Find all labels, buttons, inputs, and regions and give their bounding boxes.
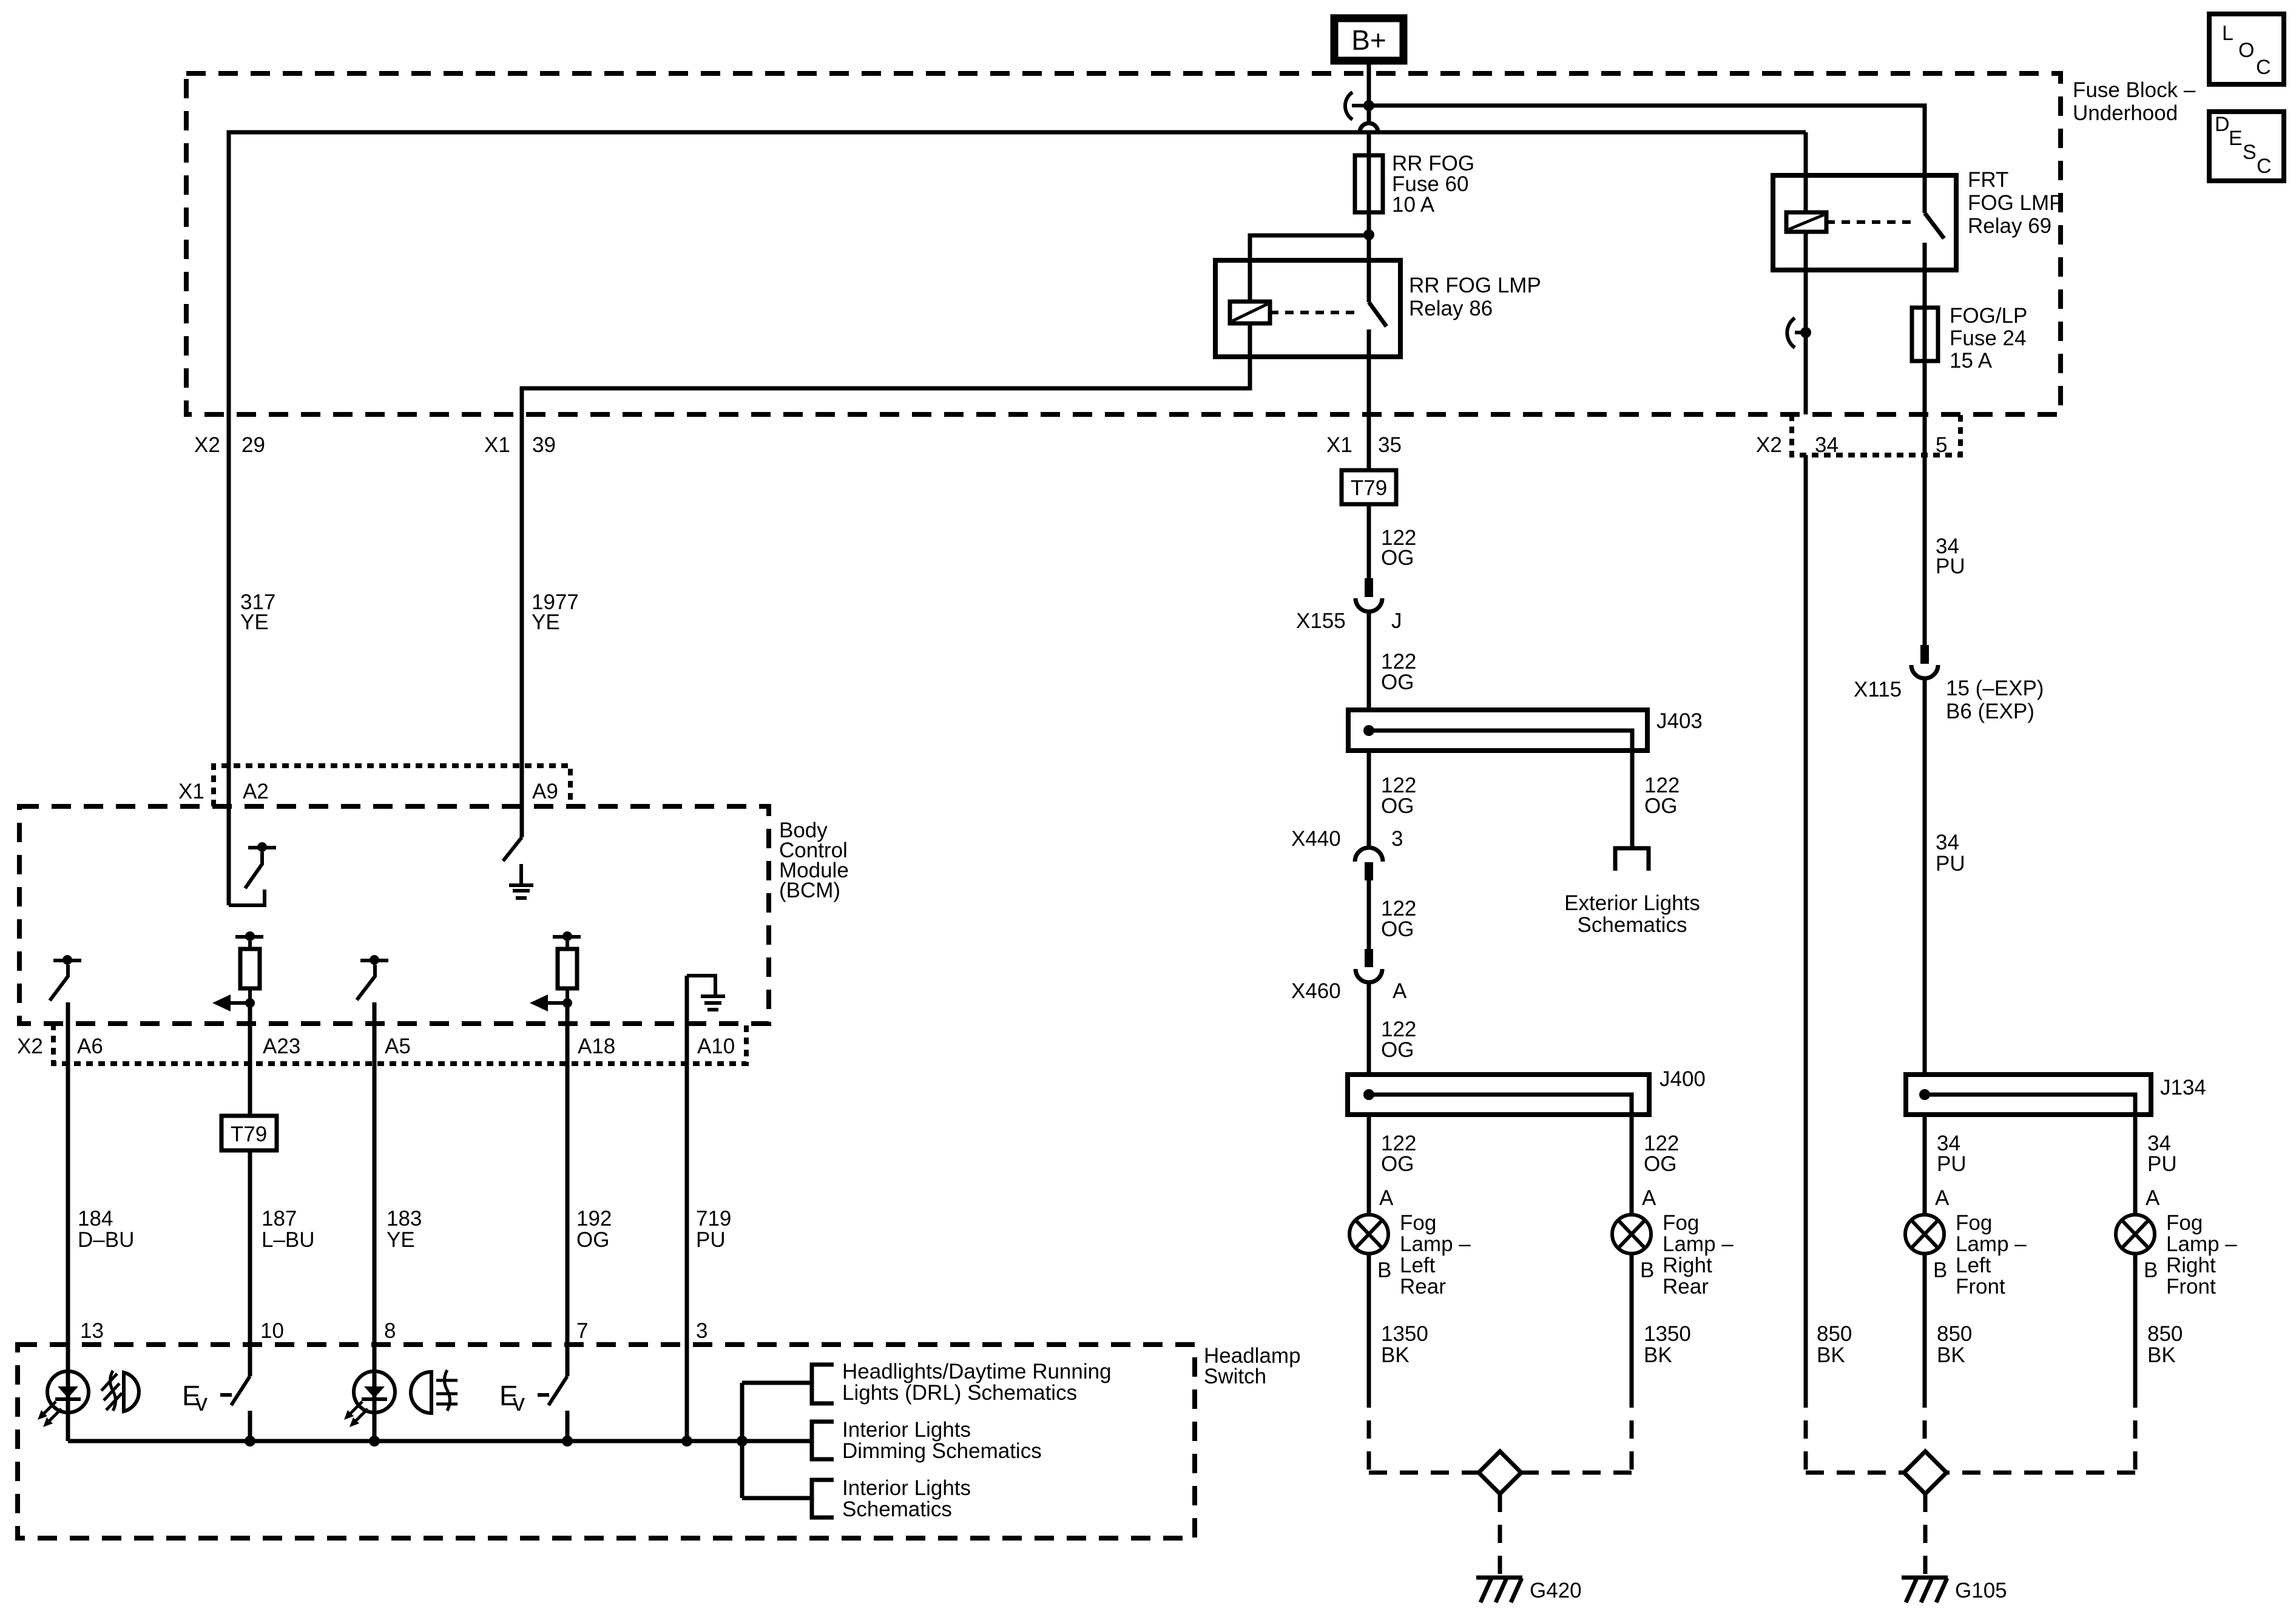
wire label 187 L-BU: [262, 1207, 315, 1252]
wire X115 to J134: [1923, 678, 1927, 1075]
svg-text:Headlights/Daytime Running: Headlights/Daytime Running: [842, 1360, 1112, 1383]
node bus dot 3: [681, 1436, 692, 1447]
svg-text:Switch: Switch: [1204, 1365, 1266, 1388]
wire relay 86 switch output: [1367, 329, 1371, 470]
svg-text:v: v: [195, 1389, 208, 1416]
svg-text:PU: PU: [1936, 555, 1965, 578]
off-page bracket DRL: [812, 1365, 834, 1403]
svg-text:D: D: [2215, 113, 2230, 136]
svg-text:B6 (EXP): B6 (EXP): [1946, 700, 2034, 723]
fuse block clip symbol at relay 69 return: [1787, 318, 1806, 348]
wire label 122 OG (3): [1381, 774, 1416, 818]
wire hop over BCM feed line: [1360, 106, 1378, 155]
svg-text:G420: G420: [1530, 1579, 1582, 1602]
svg-text:X1: X1: [178, 780, 204, 803]
connector X115 labels: [1854, 677, 2044, 723]
lamp fog right rear: [1612, 1215, 1651, 1254]
svg-text:PU: PU: [1936, 852, 1965, 876]
wire A5 pin 8: [373, 1002, 377, 1441]
switch A5: [357, 955, 388, 1000]
connector pin box X2 A6-A10 dotted: [53, 1024, 746, 1064]
svg-text:X1: X1: [1326, 433, 1352, 457]
wire label 122 OG (7): [1381, 1132, 1416, 1176]
T79 tag box middle chain: [1342, 470, 1396, 504]
wire A18 to headlamp switch pin 7: [566, 1003, 570, 1376]
wire label 122 OG (1): [1381, 526, 1416, 570]
svg-text:G105: G105: [1955, 1579, 2007, 1602]
wire feed to relay 69 coil: [1804, 132, 1808, 212]
relay K86 label: [1409, 274, 1541, 320]
fuse block label: [2073, 78, 2196, 125]
svg-text:X2: X2: [1756, 433, 1782, 457]
svg-text:1350: 1350: [1381, 1322, 1428, 1346]
off-page bracket exterior lights: [1615, 848, 1649, 871]
svg-text:S: S: [2243, 141, 2257, 164]
svg-text:FOG/LP: FOG/LP: [1950, 304, 2027, 328]
svg-text:X1: X1: [484, 433, 510, 457]
pin label X2 29: [194, 433, 265, 457]
svg-text:192: 192: [576, 1207, 612, 1230]
svg-text:BK: BK: [2147, 1343, 2176, 1367]
svg-text:34: 34: [1936, 831, 1959, 854]
lamp right front label: [2166, 1211, 2237, 1298]
switch A6: [50, 955, 81, 1001]
wire J403 right branch: [1630, 751, 1635, 848]
fuse F60 label: [1392, 152, 1474, 217]
svg-text:Lamp –: Lamp –: [1663, 1232, 1734, 1256]
svg-text:15 A: 15 A: [1950, 349, 1993, 373]
switch headlamp front fog position: [499, 1376, 567, 1416]
off-page bracket interior lights dimming: [812, 1422, 834, 1459]
svg-text:Rear: Rear: [1400, 1275, 1446, 1298]
svg-text:B: B: [1640, 1258, 1654, 1282]
switch A9 blade to ground: [503, 837, 522, 861]
LOC legend box: [2209, 14, 2284, 84]
svg-text:Left: Left: [1956, 1254, 1991, 1277]
wire relay 86 switch feed: [1367, 235, 1371, 302]
wire label 1977 YE: [532, 590, 579, 634]
svg-text:3: 3: [1391, 827, 1403, 851]
wire junction to relay 86 coil: [1250, 235, 1369, 302]
svg-text:X115: X115: [1854, 678, 1902, 701]
wire right rear lamp ground: [1630, 1254, 1634, 1389]
fuse F24 FOG/LP: [1912, 308, 1938, 361]
ground G105 symbol: [1902, 1578, 1948, 1602]
wire label 122 OG (8): [1644, 1132, 1679, 1176]
lamp left front label: [1956, 1211, 2027, 1298]
wire X155 to J403: [1367, 612, 1371, 710]
icon rear fog lamp: [101, 1371, 139, 1411]
svg-text:850: 850: [1817, 1322, 1852, 1346]
svg-text:v: v: [513, 1389, 525, 1416]
ground symbol inside BCM at A9: [509, 864, 533, 898]
fuse block clip symbol at B+ junction: [1345, 92, 1369, 120]
svg-text:PU: PU: [1937, 1152, 1967, 1176]
svg-text:Interior Lights: Interior Lights: [842, 1476, 971, 1500]
relay K86 switch blade: [1369, 302, 1386, 326]
LED indicator rear fog: [47, 1371, 89, 1413]
wire fuse 60 to junction: [1367, 212, 1371, 235]
lamp right rear label: [1663, 1211, 1734, 1298]
svg-text:29: 29: [241, 433, 265, 457]
svg-text:J400: J400: [1660, 1067, 1706, 1091]
connector pin box X1 A2/A9 dotted: [214, 766, 570, 806]
dashed wire to G420: [1498, 1494, 1502, 1576]
svg-text:Lights (DRL) Schematics: Lights (DRL) Schematics: [842, 1381, 1077, 1405]
relay K69 coil: [1786, 212, 1826, 232]
relay K69 coil to switch dashed link: [1826, 220, 1911, 224]
connector X460 labels: [1291, 979, 1407, 1003]
ground symbol inside BCM at A10: [687, 976, 725, 1010]
svg-text:Schematics: Schematics: [1578, 913, 1687, 937]
wire T79 to headlamp switch pin 10: [248, 1150, 252, 1376]
svg-text:OG: OG: [576, 1228, 609, 1252]
svg-text:O: O: [2238, 39, 2254, 62]
wire J134 to right front lamp: [2133, 1115, 2138, 1215]
svg-text:10: 10: [260, 1319, 284, 1343]
svg-text:719: 719: [696, 1207, 731, 1230]
svg-text:J: J: [1391, 609, 1402, 633]
wire fuse 24 to X115: [1923, 361, 1927, 645]
svg-text:YE: YE: [532, 610, 560, 634]
wire left rear lamp ground: [1367, 1254, 1371, 1389]
svg-text:Exterior Lights: Exterior Lights: [1564, 891, 1700, 915]
svg-text:A6: A6: [77, 1035, 103, 1058]
svg-text:183: 183: [387, 1207, 422, 1230]
splice diamond front: [1904, 1451, 1947, 1494]
wire relay 69 return to X2 34: [1804, 333, 1808, 414]
wire label 1350 BK right: [1644, 1322, 1691, 1367]
wire A6 pin 13: [66, 1002, 70, 1441]
T79 tag box BCM: [221, 1116, 277, 1150]
headlamp switch dashed box: [18, 1345, 1195, 1538]
wire A23 to T79: [248, 1003, 252, 1116]
LED indicator front fog: [354, 1371, 395, 1413]
wire X460 to J400: [1367, 982, 1371, 1075]
LED front fog photon arrows: [344, 1402, 368, 1427]
svg-text:T79: T79: [231, 1122, 267, 1146]
wire label 122 OG (5): [1381, 897, 1416, 941]
wire label 122 OG (4): [1644, 774, 1680, 818]
wire switch 7 to bus: [566, 1411, 570, 1441]
resistor A23 pullup: [235, 931, 263, 1003]
svg-text:A: A: [2146, 1186, 2160, 1210]
svg-text:15 (–EXP): 15 (–EXP): [1946, 677, 2044, 700]
svg-text:A: A: [1935, 1186, 1950, 1210]
svg-text:BK: BK: [1817, 1343, 1845, 1367]
svg-text:PU: PU: [696, 1228, 726, 1252]
dashed wire to G105: [1923, 1494, 1928, 1576]
svg-text:Lamp –: Lamp –: [1400, 1232, 1471, 1256]
node bus dot 7: [562, 1436, 573, 1447]
wire label 850 BK right: [2147, 1322, 2183, 1367]
wire label 850 BK left: [1817, 1322, 1852, 1367]
svg-text:C: C: [2256, 56, 2271, 79]
svg-text:Interior Lights: Interior Lights: [842, 1418, 971, 1442]
pin label X2 34: [1756, 433, 1838, 457]
svg-text:C: C: [2257, 155, 2272, 178]
svg-text:Fog: Fog: [2166, 1211, 2203, 1235]
svg-text:A: A: [1379, 1186, 1394, 1210]
fuse F24 label: [1950, 304, 2027, 373]
wire label 1350 BK left: [1381, 1322, 1428, 1367]
svg-text:A23: A23: [263, 1035, 300, 1058]
svg-text:B: B: [2144, 1258, 2158, 1282]
svg-text:187: 187: [262, 1207, 297, 1230]
relay K86 coil to switch dashed link: [1270, 311, 1360, 314]
svg-text:850: 850: [1937, 1322, 1972, 1346]
fuse block underhood dashed box: [186, 73, 2061, 414]
wire J403 left to X440: [1367, 751, 1371, 848]
fuse F60 RR FOG: [1355, 155, 1383, 212]
DESC legend box: [2209, 112, 2284, 181]
wire B+ down to junction: [1367, 61, 1371, 106]
node junction A18: [562, 998, 572, 1008]
svg-text:J403: J403: [1656, 709, 1703, 733]
node splice junction at B+ feed: [1363, 100, 1374, 111]
connector pin box X2 34 / 5 dotted: [1792, 414, 1960, 455]
svg-text:7: 7: [576, 1319, 588, 1343]
svg-text:J134: J134: [2160, 1076, 2206, 1099]
connector X155 labels: [1296, 609, 1402, 633]
node bus dot 10: [245, 1436, 255, 1447]
wire label 317 YE: [240, 590, 275, 634]
relay K69 label: [1968, 168, 2064, 238]
svg-text:184: 184: [78, 1207, 113, 1230]
svg-text:E: E: [2229, 127, 2243, 150]
svg-text:OG: OG: [1381, 670, 1414, 694]
svg-text:A2: A2: [243, 780, 269, 803]
wire X1 35 to T79: [1367, 357, 1371, 470]
lamp left rear label: [1400, 1211, 1471, 1298]
svg-text:OG: OG: [1381, 546, 1414, 570]
splice pack J400: [1348, 1075, 1649, 1115]
svg-text:D–BU: D–BU: [78, 1228, 134, 1252]
svg-text:Schematics: Schematics: [842, 1497, 952, 1521]
BCM label: [779, 819, 849, 902]
svg-text:X2: X2: [194, 433, 220, 457]
dashed ground wire right rear: [1521, 1389, 1632, 1473]
svg-text:Left: Left: [1400, 1254, 1436, 1277]
svg-text:850: 850: [2147, 1322, 2183, 1346]
svg-text:Fuse Block –: Fuse Block –: [2073, 78, 2196, 102]
svg-text:34: 34: [1815, 433, 1838, 457]
svg-text:RR FOG LMP: RR FOG LMP: [1409, 274, 1541, 297]
svg-text:Dimming Schematics: Dimming Schematics: [842, 1439, 1042, 1463]
wire relay 86 coil return to X1 39: [522, 323, 1250, 837]
svg-text:L–BU: L–BU: [262, 1228, 315, 1252]
svg-text:FOG LMP: FOG LMP: [1968, 191, 2064, 215]
relay K86 RR FOG LMP box: [1215, 260, 1400, 357]
svg-text:BK: BK: [1381, 1343, 1410, 1367]
svg-text:L: L: [2222, 22, 2234, 45]
svg-text:Relay 86: Relay 86: [1409, 297, 1493, 320]
svg-text:Lamp –: Lamp –: [2166, 1232, 2237, 1256]
wire label 34 PU (3): [1937, 1132, 1967, 1176]
dashed ground wire 850 right: [1947, 1389, 2135, 1473]
pin label X2 A6: [17, 1035, 103, 1058]
connector X115 terminal: [1911, 645, 1938, 678]
svg-text:OG: OG: [1644, 794, 1677, 818]
wire label 192 OG: [576, 1207, 612, 1252]
splice pack J134: [1906, 1075, 2151, 1115]
relay K86 coil: [1230, 302, 1270, 323]
pin label X1 A2: [178, 780, 269, 803]
arrow signal out A18: [530, 994, 567, 1011]
connector X155 terminal: [1356, 578, 1382, 612]
svg-text:BK: BK: [1937, 1343, 1965, 1367]
svg-text:B: B: [1377, 1258, 1391, 1282]
wire label 34 PU (1): [1936, 535, 1965, 578]
wire label 183 YE: [387, 1207, 422, 1252]
headlamp switch label: [1204, 1344, 1301, 1388]
svg-text:Right: Right: [1663, 1254, 1712, 1277]
svg-text:X440: X440: [1291, 827, 1341, 851]
switch A2 rear fog input contact: [229, 842, 276, 905]
wire left front lamp ground: [1923, 1254, 1927, 1389]
wire J400 to right rear lamp: [1630, 1115, 1634, 1215]
svg-text:Front: Front: [2166, 1275, 2216, 1298]
icon front fog lamp: [411, 1370, 458, 1413]
off-page bracket interior lights: [812, 1480, 834, 1517]
wire label 122 OG (6): [1381, 1018, 1416, 1062]
connector X440 terminal: [1355, 848, 1383, 880]
wire label 34 PU (4): [2147, 1132, 2177, 1176]
svg-text:Fog: Fog: [1663, 1211, 1699, 1235]
node junction relay 69 return: [1800, 327, 1811, 338]
wire J134 to left front lamp: [1923, 1115, 1927, 1215]
resistor A18 pullup: [553, 931, 581, 1003]
svg-text:OG: OG: [1381, 794, 1414, 818]
svg-text:Right: Right: [2166, 1254, 2216, 1277]
dashed ground wire left rear: [1369, 1389, 1479, 1473]
B+ battery feed box: [1334, 18, 1403, 61]
svg-text:(BCM): (BCM): [779, 879, 840, 902]
node bus dot 8: [369, 1436, 380, 1447]
svg-text:A10: A10: [697, 1035, 735, 1058]
dashed ground wire 850 left: [1806, 1389, 1904, 1473]
svg-text:3: 3: [696, 1319, 707, 1343]
svg-text:X460: X460: [1291, 979, 1341, 1003]
dashed ground wire 850 middle: [1923, 1389, 1927, 1451]
svg-text:5: 5: [1936, 433, 1947, 457]
connector X460 terminal: [1356, 949, 1382, 982]
relay K69 switch blade: [1925, 213, 1944, 238]
wire label 719 PU: [696, 1207, 731, 1252]
svg-text:X155: X155: [1296, 609, 1346, 633]
node junction below fuse 60: [1363, 229, 1374, 240]
ground G420 symbol: [1476, 1578, 1522, 1602]
wire label 850 BK middle: [1937, 1322, 1972, 1367]
svg-text:A5: A5: [385, 1035, 411, 1058]
svg-text:B+: B+: [1351, 24, 1386, 56]
wire switch 10 to bus: [248, 1411, 252, 1441]
wire relay 69 switch output to fuse 24: [1923, 243, 1927, 308]
node junction A23: [245, 998, 255, 1008]
wire label 34 PU (2): [1936, 831, 1965, 876]
svg-text:B: B: [1933, 1258, 1947, 1282]
svg-text:Relay 69: Relay 69: [1968, 214, 2051, 238]
svg-text:10 A: 10 A: [1392, 193, 1435, 217]
BCM dashed box: [19, 806, 769, 1024]
svg-text:OG: OG: [1644, 1152, 1676, 1176]
svg-text:39: 39: [532, 433, 556, 457]
svg-text:Fog: Fog: [1400, 1211, 1436, 1235]
relay K69 FRT FOG LMP box: [1773, 175, 1956, 270]
svg-text:BK: BK: [1644, 1343, 1672, 1367]
lamp fog left front: [1905, 1215, 1944, 1254]
off-page text interior lights dimming: [842, 1418, 1042, 1463]
svg-text:A18: A18: [578, 1035, 615, 1058]
wire J400 to left rear lamp: [1367, 1115, 1371, 1215]
off-page text interior lights schematics: [842, 1476, 971, 1521]
svg-text:8: 8: [384, 1319, 396, 1343]
svg-text:13: 13: [80, 1319, 104, 1343]
svg-text:OG: OG: [1381, 1152, 1414, 1176]
svg-text:Fog: Fog: [1956, 1211, 1992, 1235]
off-page text exterior lights schematics: [1564, 891, 1700, 937]
wire branch to off-page brackets: [742, 1383, 812, 1498]
svg-text:FRT: FRT: [1968, 168, 2008, 192]
svg-text:Rear: Rear: [1663, 1275, 1709, 1298]
LED rear fog photon arrows: [38, 1402, 61, 1427]
arrow signal out A23: [212, 994, 250, 1011]
wire BCM A2 feed from fuse block (X2 29): [229, 132, 1806, 905]
off-page text DRL schematics: [842, 1360, 1112, 1405]
wire label 184 D-BU: [78, 1207, 134, 1252]
svg-text:1350: 1350: [1644, 1322, 1691, 1346]
svg-text:Underhood: Underhood: [2073, 101, 2178, 125]
wire relay 69 coil return: [1804, 232, 1808, 333]
splice pack J403: [1348, 710, 1647, 751]
splice diamond rear: [1479, 1451, 1521, 1494]
wire A10 pin 3: [685, 976, 689, 1441]
svg-text:OG: OG: [1381, 1038, 1414, 1062]
svg-text:Lamp –: Lamp –: [1956, 1232, 2027, 1256]
svg-text:YE: YE: [240, 610, 269, 634]
svg-text:Fuse 24: Fuse 24: [1950, 326, 2026, 350]
node bus dot branch: [737, 1436, 748, 1447]
connector X440 labels: [1291, 827, 1403, 851]
svg-text:PU: PU: [2147, 1152, 2177, 1176]
lamp fog right front: [2116, 1215, 2155, 1254]
svg-text:A: A: [1642, 1186, 1656, 1210]
wire T79 to X155: [1367, 504, 1371, 578]
switch headlamp rear fog position: [182, 1376, 250, 1416]
pin label X1 35: [1326, 433, 1402, 457]
wire right front lamp ground: [2133, 1254, 2138, 1389]
svg-text:A9: A9: [532, 780, 558, 803]
lamp fog left rear: [1349, 1215, 1388, 1254]
wire common bus headlamp switch: [68, 1439, 812, 1443]
svg-text:YE: YE: [387, 1228, 415, 1252]
pin label X1 39: [484, 433, 556, 457]
svg-text:Front: Front: [1956, 1275, 2005, 1298]
svg-text:35: 35: [1378, 433, 1402, 457]
svg-text:X2: X2: [17, 1035, 43, 1058]
wire relay 69 return 850 BK: [1804, 455, 1808, 1389]
svg-text:OG: OG: [1381, 917, 1414, 941]
svg-text:T79: T79: [1351, 476, 1387, 500]
wire X440 to X460: [1367, 880, 1371, 949]
wire label 122 OG (2): [1381, 650, 1416, 694]
svg-text:A: A: [1393, 979, 1407, 1003]
wire B+ junction to FRT relay switch: [1369, 106, 1925, 213]
